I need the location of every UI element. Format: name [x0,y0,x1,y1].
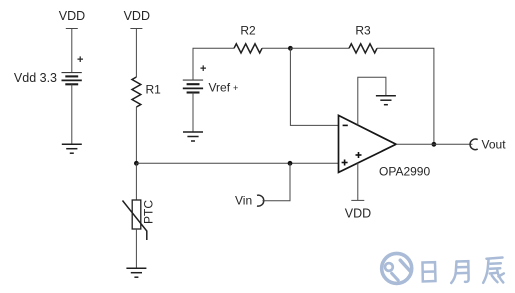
node B junction (R2 / R3 / inverting input) [288,46,293,51]
wire battery V2 to ground [192,93,194,132]
wire node B to resistor R3 [290,47,349,49]
wire R2 to node B [262,47,290,49]
resistor R3 [349,24,377,54]
svg-text:VDD: VDD [59,9,85,23]
svg-text:Vdd 3.3: Vdd 3.3 [14,71,57,85]
node A junction (R1 / PTC / noninverting rail) [134,161,139,166]
svg-text:VDD: VDD [124,9,150,23]
wire op-amp output to port Vout [396,143,472,145]
resistor R1 [132,77,161,107]
thermistor PTC [123,200,156,240]
ground (op-amp V- pin) [376,96,396,105]
battery V1 Vdd 3.3 [14,54,84,85]
node D junction (Vin tap on noninverting rail) [288,161,293,166]
svg-text:Vin: Vin [235,194,252,208]
wire battery V1 to ground [71,84,73,144]
wire node B to op-amp inverting input [290,48,338,125]
op-amp U1 OPA2990 [339,115,431,178]
wire node A to thermistor PTC [135,163,137,200]
wire battery V2 to resistor R2 (corner) [193,48,234,80]
node C junction (feedback / output) [432,142,437,147]
svg-text:+: + [77,54,83,66]
wire R1 to node A [135,107,137,163]
wire VDD flag to resistor R1 [135,29,137,78]
svg-text:+: + [200,63,206,75]
wire op-amp V+ pin to VDD flag [357,163,359,201]
power flag VDD (op-amp supply) [345,200,371,220]
svg-text:OPA2990: OPA2990 [379,165,430,179]
svg-text:R1: R1 [146,83,162,97]
port Vin [235,194,264,208]
port Vout [470,138,506,152]
watermark character CHEN (dawn) [483,258,504,283]
ground (battery V1) [62,144,82,153]
svg-text:R3: R3 [355,24,371,38]
svg-text:VDD: VDD [345,207,371,221]
wire node A to op-amp noninverting input [136,162,338,164]
wire R3 to node C (feedback) [377,48,434,144]
watermark logo (circle emblem) [382,253,412,283]
resistor R2 [234,24,262,54]
watermark character RI (sun) [423,262,436,281]
wire PTC to ground [135,229,137,268]
battery V2 Vref [183,63,238,95]
svg-text:Vout: Vout [482,138,507,152]
wire op-amp V- pin to ground [358,77,386,125]
ground (PTC) [126,268,146,277]
svg-text:R2: R2 [240,24,256,38]
svg-text:PTC: PTC [142,200,156,224]
wire VDD flag to battery V1 [71,29,73,73]
svg-text:Vref: Vref [209,81,231,95]
watermark character YUE (moon) [451,261,468,283]
ground (battery V2) [183,132,203,141]
power flag VDD (R1 branch) [124,9,150,29]
svg-text:+: + [233,83,238,93]
power flag VDD (battery V1 branch) [59,9,85,29]
wire port Vin to node D [262,163,290,200]
